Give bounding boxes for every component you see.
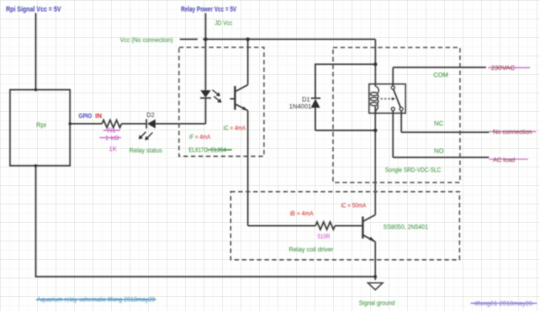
svg-text:Relay status: Relay status bbox=[129, 148, 162, 155]
svg-text:COM: COM bbox=[433, 72, 448, 79]
svg-text:Relay coil driver: Relay coil driver bbox=[289, 247, 334, 254]
svg-text:230VAC: 230VAC bbox=[491, 65, 515, 72]
svg-text:No connection: No connection bbox=[493, 129, 532, 136]
svg-text:1K: 1K bbox=[109, 146, 118, 153]
svg-text:D2: D2 bbox=[147, 112, 156, 119]
svg-text:GPIO: GPIO bbox=[79, 113, 93, 120]
svg-text:EL817C, EL354—: EL817C, EL354— bbox=[189, 147, 233, 154]
svg-text:D1: D1 bbox=[302, 97, 311, 104]
svg-text:Aquarium relay schematic tlfon: Aquarium relay schematic tlfong 2018may2… bbox=[37, 297, 155, 304]
svg-text:R1: R1 bbox=[108, 128, 117, 135]
svg-text:1 kΩ: 1 kΩ bbox=[105, 135, 119, 142]
svg-text:iB = 4mA: iB = 4mA bbox=[290, 210, 314, 217]
svg-text:JD Vcc: JD Vcc bbox=[215, 20, 233, 27]
svg-text:iC = 4mA: iC = 4mA bbox=[224, 125, 247, 132]
svg-text:iC = 50mA: iC = 50mA bbox=[341, 203, 367, 210]
svg-text:Songle SRD-VDC-SLC: Songle SRD-VDC-SLC bbox=[385, 167, 441, 174]
svg-text:NO: NO bbox=[434, 148, 444, 155]
svg-text:510R: 510R bbox=[318, 234, 331, 241]
svg-text:SS8050, 2N5401: SS8050, 2N5401 bbox=[383, 224, 428, 231]
svg-text:Rpi Signal Vcc = 5V: Rpi Signal Vcc = 5V bbox=[6, 7, 61, 14]
svg-text:IN: IN bbox=[95, 113, 102, 120]
svg-text:Signal ground: Signal ground bbox=[359, 300, 395, 307]
svg-text:-tlfong01 2018may26-: -tlfong01 2018may26- bbox=[473, 301, 535, 308]
svg-text:Relay Power Vcc = 5V: Relay Power Vcc = 5V bbox=[181, 7, 237, 14]
svg-text:Rpi: Rpi bbox=[36, 122, 46, 129]
svg-text:1N4001: 1N4001 bbox=[289, 104, 312, 111]
svg-text:Vcc (No connection): Vcc (No connection) bbox=[120, 37, 173, 44]
svg-text:AC load: AC load bbox=[493, 157, 515, 164]
svg-text:iF = 4mA: iF = 4mA bbox=[189, 134, 211, 141]
svg-text:NC: NC bbox=[434, 121, 444, 128]
